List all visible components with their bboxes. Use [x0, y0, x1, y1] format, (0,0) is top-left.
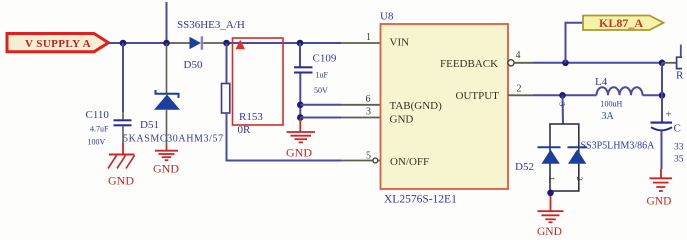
- node junction feedback right: [659, 60, 666, 67]
- svg-text:3: 3: [366, 107, 371, 118]
- pin stub D51 top: [166, 43, 168, 93]
- node junction D52 ground: [547, 190, 554, 197]
- svg-text:2: 2: [517, 84, 522, 95]
- svg-text:50V: 50V: [314, 86, 328, 95]
- node junction at R153 tap: [223, 40, 230, 47]
- svg-text:100V: 100V: [88, 138, 106, 147]
- capacitor C109: [294, 66, 313, 73]
- diode D51 TVS: [154, 90, 180, 110]
- wire output net: [533, 94, 597, 96]
- op-amp U8 body: [381, 24, 509, 189]
- wire feedback net: [533, 62, 662, 64]
- wire D52 branch: [562, 95, 565, 124]
- wire R153 branch top: [226, 43, 228, 84]
- svg-text:V SUPPLY A: V SUPPLY A: [25, 38, 91, 50]
- wire C109 branch: [299, 43, 301, 67]
- svg-text:GND: GND: [390, 113, 414, 125]
- node junction pin3 net: [297, 114, 304, 121]
- diode D50: [167, 36, 227, 49]
- svg-text:TAB(GND): TAB(GND): [390, 100, 443, 112]
- pin stub C110 top: [122, 112, 124, 120]
- svg-text:3A: 3A: [602, 111, 615, 122]
- svg-text:D50: D50: [184, 59, 203, 71]
- svg-text:GND: GND: [537, 226, 562, 237]
- wire to KL87 port: [566, 23, 584, 63]
- svg-text:100uH: 100uH: [601, 100, 623, 109]
- capacitor C110: [114, 119, 132, 126]
- node junction at C110 tap: [120, 40, 127, 47]
- wire pin3 net: [300, 117, 341, 119]
- node junction at D51 tap: [163, 40, 170, 47]
- svg-text:GND: GND: [647, 196, 672, 208]
- svg-text:XL2576S-12E1: XL2576S-12E1: [384, 194, 457, 206]
- svg-text:+: +: [666, 110, 672, 121]
- wire C109 bottom through pins: [299, 74, 301, 119]
- resistor R at edge: [677, 45, 682, 69]
- power port KL87_A: [583, 16, 664, 31]
- svg-text:4.7uF: 4.7uF: [90, 125, 109, 134]
- wire feedback to R edge: [662, 62, 677, 64]
- wire output node down to cap: [661, 95, 663, 121]
- pin stub U8 pin5: [341, 160, 373, 162]
- ground under D52: [537, 196, 564, 238]
- diode D52 dual: [538, 124, 588, 191]
- pin stub U8 pin2 output: [508, 94, 533, 96]
- pin stub U8 pin3: [341, 117, 381, 119]
- wire net VSUPPLY rail: [109, 42, 168, 44]
- wire to top edge: [166, 2, 168, 43]
- red highlight box: [233, 38, 284, 125]
- pin stub U8 pin1: [341, 42, 381, 44]
- svg-text:GND: GND: [153, 162, 179, 176]
- svg-text:35: 35: [674, 155, 684, 165]
- node junction D52 tap: [559, 92, 566, 99]
- svg-text:SS36HE3_A/H: SS36HE3_A/H: [177, 19, 245, 31]
- wire R153 bottom to ON/OFF: [227, 113, 342, 161]
- power port V SUPPLY A: [7, 34, 109, 52]
- svg-text:KL87_A: KL87_A: [599, 16, 643, 30]
- svg-text:D52: D52: [515, 161, 534, 173]
- ground chassis under C110: [108, 143, 135, 188]
- svg-text:C110: C110: [86, 109, 110, 121]
- svg-text:5: 5: [366, 151, 371, 162]
- svg-text:33: 33: [674, 143, 684, 153]
- resistor R153: [222, 84, 230, 114]
- svg-text:0R: 0R: [238, 124, 252, 136]
- inductor L4: [597, 87, 643, 95]
- wire rail after D50 to VIN: [227, 42, 342, 44]
- svg-text:C: C: [674, 123, 681, 135]
- wire L4 to output node: [643, 94, 663, 96]
- svg-text:R153: R153: [239, 111, 263, 123]
- svg-text:C109: C109: [313, 53, 337, 65]
- red error marker triangle: [236, 40, 246, 50]
- svg-text:ON/OFF: ON/OFF: [390, 156, 429, 168]
- svg-text:D51: D51: [140, 119, 159, 131]
- node junction at C109 tap: [297, 40, 304, 47]
- svg-text:6: 6: [366, 94, 371, 105]
- wire pin6 net: [300, 104, 341, 106]
- node junction KL87 tap: [562, 60, 569, 67]
- svg-text:GND: GND: [108, 174, 134, 188]
- node junction pin6 net: [297, 102, 304, 109]
- svg-text:VIN: VIN: [390, 37, 410, 49]
- wire feedback to output node vertical: [661, 63, 663, 96]
- svg-text:4: 4: [516, 50, 521, 61]
- pin stub D51 bottom: [166, 110, 168, 145]
- pin stub U8 pin4 feedback: [508, 60, 533, 66]
- svg-text:3: 3: [558, 102, 568, 106]
- pin stub C110 bottom: [122, 126, 124, 143]
- svg-text:SS3P5LHM3/86A: SS3P5LHM3/86A: [581, 141, 656, 152]
- capacitor C polarized output: [651, 110, 673, 131]
- svg-text:FEEDBACK: FEEDBACK: [440, 58, 498, 70]
- ground under output cap: [647, 169, 673, 208]
- svg-text:R: R: [676, 70, 684, 82]
- ground under D51: [153, 145, 179, 176]
- svg-text:1: 1: [547, 177, 557, 181]
- wire cap bottom: [661, 131, 663, 170]
- svg-text:L4: L4: [595, 76, 608, 88]
- ground under C109: [286, 119, 315, 160]
- svg-text:5KASMC30AHM3/57: 5KASMC30AHM3/57: [123, 134, 224, 145]
- svg-text:U8: U8: [380, 11, 394, 23]
- node junction output cap: [659, 92, 666, 99]
- svg-text:2: 2: [575, 177, 585, 181]
- wire C110 branch: [122, 43, 124, 112]
- svg-text:OUTPUT: OUTPUT: [456, 90, 500, 102]
- pin stub U8 pin6: [341, 104, 381, 106]
- svg-text:GND: GND: [286, 146, 312, 160]
- svg-text:1: 1: [366, 32, 371, 43]
- svg-text:1uF: 1uF: [316, 71, 329, 80]
